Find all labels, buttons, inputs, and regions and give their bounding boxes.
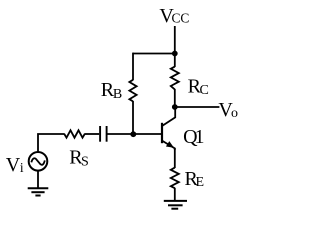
resistor RS: [64, 130, 84, 137]
resistor RC: [171, 67, 179, 90]
resistor RB: [129, 80, 136, 102]
wire RB bottom lead: [132, 101, 134, 134]
resistor RE: [171, 168, 179, 189]
node VCC junction: [172, 51, 178, 57]
wire RS to capacitor: [84, 133, 99, 135]
ground source: [28, 188, 49, 195]
source Vi: [29, 152, 48, 171]
node base junction: [130, 131, 136, 137]
wire RE bottom lead: [174, 188, 176, 200]
svg-text:Q1: Q1: [183, 126, 203, 148]
wire VCC lead: [174, 26, 176, 54]
capacitor C1: [100, 126, 107, 142]
wire emitter lead: [174, 148, 176, 168]
wire output: [175, 106, 220, 108]
wire source top lead: [38, 134, 65, 152]
wire capacitor to base: [107, 133, 162, 135]
ground emitter: [164, 201, 187, 209]
transistor Q1: [162, 107, 175, 150]
node collector output junction: [172, 104, 178, 110]
wire RC top lead: [174, 54, 176, 68]
wire top rail: [133, 53, 175, 55]
wire source bottom lead: [37, 170, 39, 188]
wire RB top lead: [132, 53, 134, 81]
wire RC bottom lead: [174, 89, 176, 107]
